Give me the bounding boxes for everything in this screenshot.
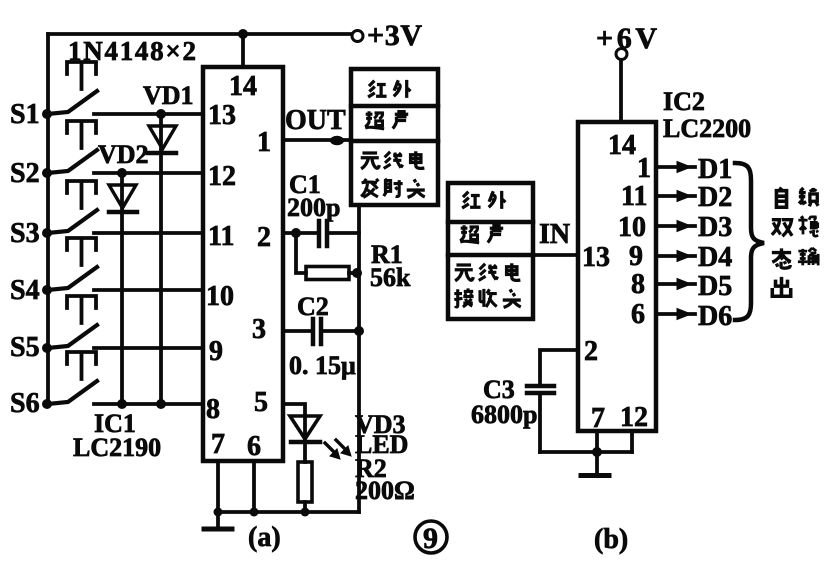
svg-text:6800p: 6800p [471,400,537,429]
svg-text:14: 14 [608,130,636,161]
resistor R1 [296,233,362,280]
svg-text:D4: D4 [698,242,732,273]
wire bottom rail (b) [540,450,632,454]
switch S6 [48,352,97,404]
node junction pin7 bottom [592,447,602,457]
svg-text:7: 7 [591,403,605,434]
label taishu (state out) [772,248,818,268]
ground (b) [581,452,609,476]
node bottom junctions [214,508,310,517]
label wuxiandian (radio) transmit [361,151,425,169]
switch S4 [48,238,97,290]
label hongwai (infrared) receive [462,191,505,209]
svg-text:VD2: VD2 [98,140,149,169]
node junction on +3V rail above pin 14 [238,29,248,39]
label zisuo (self-lock) [776,187,818,207]
IC U1 LC2190 box [203,67,283,461]
svg-text:(a): (a) [248,522,281,553]
svg-text:LC2190: LC2190 [73,433,161,462]
label chaosheng (ultrasonic) transmit [365,110,408,128]
svg-text:5: 5 [254,387,268,418]
wire bottom rail (a) [218,510,359,514]
svg-text:1: 1 [637,153,651,184]
switch S1 [48,62,97,114]
svg-text:D6: D6 [698,301,732,332]
wire right vertical from box to bottom [357,205,361,512]
svg-text:1N4148×2: 1N4148×2 [68,36,196,66]
wire D4 output [656,251,695,262]
svg-text:IN: IN [539,219,570,250]
label chu (out) [772,277,790,296]
ground (a) [204,512,232,529]
svg-text:12: 12 [620,402,648,433]
svg-text:D3: D3 [698,212,732,243]
wire D1 output [656,162,695,173]
svg-text:14: 14 [229,71,257,102]
svg-text:(b): (b) [594,524,628,555]
svg-text:6: 6 [631,299,645,330]
svg-text:56k: 56k [370,263,411,292]
wire S2 row to pin 12 [94,171,203,175]
wire pin 7 stub IC2 [595,431,599,452]
svg-text:S4: S4 [10,275,40,306]
capacitor C1 [283,221,359,246]
label shuangwen (bistable) [772,216,818,236]
node S3 junction [42,228,52,238]
svg-text:S1: S1 [10,99,40,130]
svg-text:3: 3 [252,314,266,345]
svg-text:12: 12 [208,161,236,192]
wire left bus vertical [46,34,50,404]
IC U2 LC2200 box [578,122,656,431]
node S2 junction [42,168,52,178]
power terminal +6V [616,49,627,60]
diode VD1 [148,109,176,409]
wire D2 output [656,191,695,202]
label hongwai (infrared) transmit [368,80,410,98]
svg-text:LC2200: LC2200 [663,114,751,143]
svg-text:2: 2 [584,336,598,367]
switch S5 [48,296,97,348]
svg-text:10: 10 [618,212,646,243]
svg-text:S2: S2 [10,158,40,189]
svg-text:200p: 200p [287,193,340,222]
box transmitter heads [351,69,438,205]
svg-text:D2: D2 [698,182,732,213]
node S4 junction [42,285,52,295]
label jieshoutou (receive head) [454,288,520,307]
svg-text:+3V: +3V [367,19,422,52]
label wuxiandian (radio) receive [455,263,521,281]
svg-text:6: 6 [247,431,261,462]
svg-text:9: 9 [629,241,643,272]
svg-text:11: 11 [208,221,234,252]
wire pin 6 stub [252,461,256,512]
svg-text:0. 15μ: 0. 15μ [289,351,356,380]
svg-text:9: 9 [209,336,223,367]
node S6 junction [42,399,52,409]
node junction blob on OUT wire [330,136,344,146]
svg-text:S3: S3 [10,218,40,249]
wire D5 output [656,279,695,290]
node S1 junction [42,109,52,119]
capacitor C3 [527,350,578,452]
wire D6 output [656,309,695,320]
wire +6V to pin 14 [619,60,623,122]
svg-text:D1: D1 [698,154,732,185]
svg-text:S5: S5 [10,332,40,363]
svg-text:VD1: VD1 [143,81,194,110]
node S5 junction [42,343,52,353]
wire S6 row to pin 8 [94,402,203,406]
svg-text:10: 10 [206,281,234,312]
svg-text:200Ω: 200Ω [355,476,415,505]
label fashetou (transmit head) [361,179,425,197]
svg-text:11: 11 [621,181,647,212]
svg-text:2: 2 [257,222,271,253]
wire pin 12 stub IC2 [630,431,634,452]
wire D3 output [656,221,695,232]
capacitor C2 [283,319,364,344]
svg-text:C2: C2 [297,292,329,321]
wire S1 row to pin 13 [94,112,203,116]
power terminal +3V [352,31,363,42]
svg-text:8: 8 [631,269,645,300]
wire IN to pin 13 [533,253,578,257]
svg-text:9: 9 [423,522,438,555]
svg-text:7: 7 [211,429,225,460]
switch S2 [48,121,97,173]
svg-text:+6V: +6V [596,22,657,55]
symbol circled 9 figure number [415,521,447,553]
box receiver heads [448,183,533,319]
label chaosheng (ultrasonic) receive [460,224,503,242]
switch S3 [48,181,97,233]
diode VD2 [109,168,137,409]
svg-text:OUT: OUT [285,105,346,136]
resistor R2 [298,462,312,512]
svg-text:1: 1 [257,127,271,158]
LED VD3 [283,404,351,462]
wire pin 14 stub [241,34,245,67]
wire S5 row to pin 9 [94,346,203,350]
wire S4 row to pin 10 [94,288,203,292]
svg-text:8: 8 [206,394,220,425]
svg-text:D5: D5 [698,271,732,302]
wire pin 7 stub [216,461,220,512]
wire top +3V rail [48,32,351,36]
svg-text:S6: S6 [10,388,40,419]
wire OUT pin 1 [283,138,351,142]
svg-text:IC2: IC2 [663,87,705,116]
svg-text:13: 13 [582,242,610,273]
svg-text:13: 13 [208,100,236,131]
wire S3 row to pin 11 [94,231,203,235]
brace outputs [735,163,764,320]
